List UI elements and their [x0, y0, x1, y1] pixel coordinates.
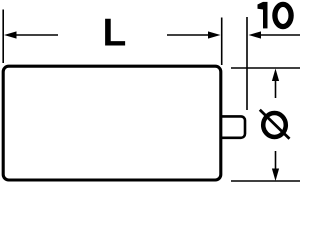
svg-text:L: L [103, 12, 127, 55]
